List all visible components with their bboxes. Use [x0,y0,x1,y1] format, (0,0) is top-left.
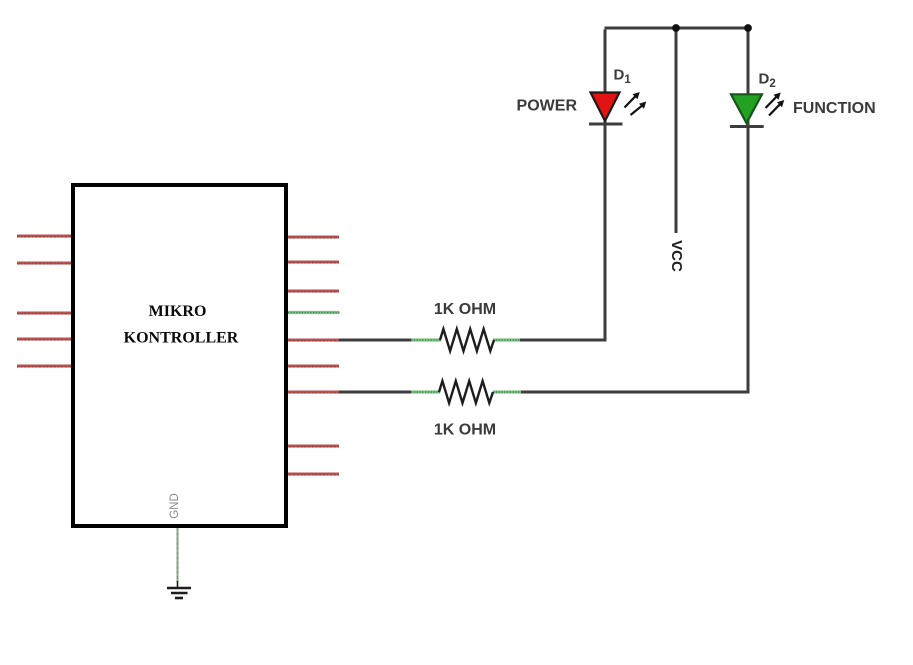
svg-text:KONTROLLER: KONTROLLER [124,330,239,347]
svg-text:FUNCTION: FUNCTION [793,100,876,117]
svg-text:1K OHM: 1K OHM [434,301,496,318]
svg-text:POWER: POWER [517,98,578,115]
svg-text:MIKRO: MIKRO [149,303,207,320]
svg-text:VCC: VCC [668,240,685,272]
svg-text:1K OHM: 1K OHM [434,422,496,439]
svg-text:GND: GND [169,493,181,519]
